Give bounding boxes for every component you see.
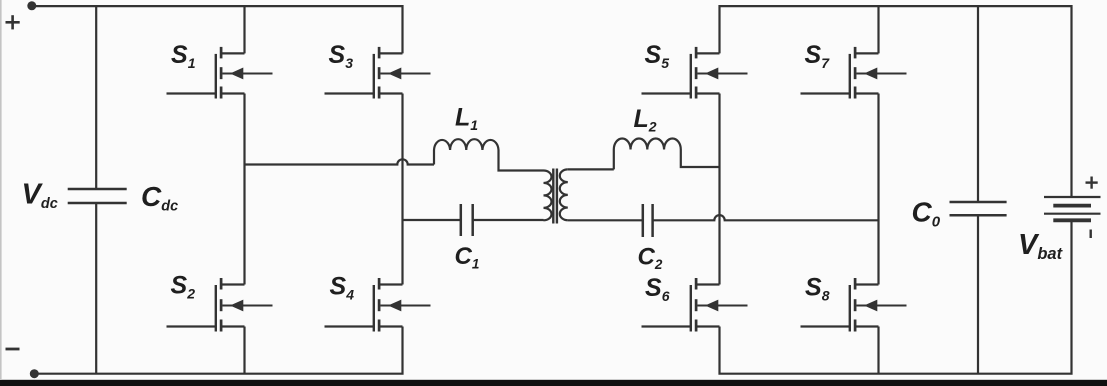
capacitor Cdc [68,189,127,203]
wire: C0 branch lower [977,215,979,373]
transistor S4 (n-channel MOSFET) [325,278,431,332]
figure left edge line [0,0,2,379]
wire: S2 source to bottom rail [243,327,245,374]
wire: S3/S4 leg (S3 source to S4 drain) [401,94,403,285]
wire: Vdc branch lower (Cdc to bottom rail) [95,203,97,374]
wire: primary top rail (Vdc+ to S3 drain corner) [32,6,403,53]
transistor S6 (n-channel MOSFET) [642,278,748,332]
node: negative input terminal dot [30,369,39,378]
transistor S8 (n-channel MOSFET) [801,278,907,332]
transistor S5 (n-channel MOSFET) [642,47,748,99]
inductor L2 [614,138,720,169]
wire: S7/S8 leg (S7 source to S8 drain) [877,94,879,285]
wire: S5/S6 leg (S5 source to S6 drain) [718,94,720,285]
wire: S8 source to bottom rail [877,327,879,374]
transistor S7 (n-channel MOSFET) [801,47,907,99]
wire: primary bottom rail (Vdc- to S4 source corner) [34,327,402,374]
capacitor C1 [461,204,473,236]
label + (input positive terminal) [6,15,20,29]
figure bottom border bar [0,380,1107,386]
transformer secondary winding [560,169,568,220]
wire: C1 to transformer primary bottom [473,219,544,221]
node: positive input terminal dot [27,1,36,10]
wire: S1/S2 leg (S1 source to S2 drain) [243,94,245,285]
transistor S3 (n-channel MOSFET) [325,47,431,99]
wire: S3/S4 midpoint to C1 [403,219,461,221]
wire: secondary top rail (S5 drain corner to battery) [720,6,1072,197]
transistor S1 (n-channel MOSFET) [167,47,273,99]
wire: transformer secondary bottom to C2 [568,219,643,221]
label - (battery negative) [1089,230,1091,239]
wire: Vdc branch upper (top rail to Cdc) [95,6,97,189]
capacitor C0 [950,202,1007,215]
battery Vbat [1044,197,1101,220]
transformer core [553,169,557,224]
capacitor C2 [643,204,653,237]
inductor L1 [434,139,544,170]
wire: S1 drain to top rail [243,6,245,53]
wire: C0 branch upper [977,6,979,202]
transistor S2 (n-channel MOSFET) [167,278,273,332]
transformer primary winding [544,171,552,221]
wire: S1/S2 midpoint to L1 (hops over S3/S4 leg) [245,159,435,164]
label + (battery positive) [1086,177,1098,189]
wire: transformer secondary top to L2 [568,168,614,170]
wire: C2 to S7/S8 midpoint (hops over S5/S6 leg) [653,215,879,220]
wire: S7 drain to top rail [877,6,879,53]
label - (input negative terminal) [6,348,20,351]
wire: secondary bottom rail (S6 source corner to battery) [720,220,1072,374]
